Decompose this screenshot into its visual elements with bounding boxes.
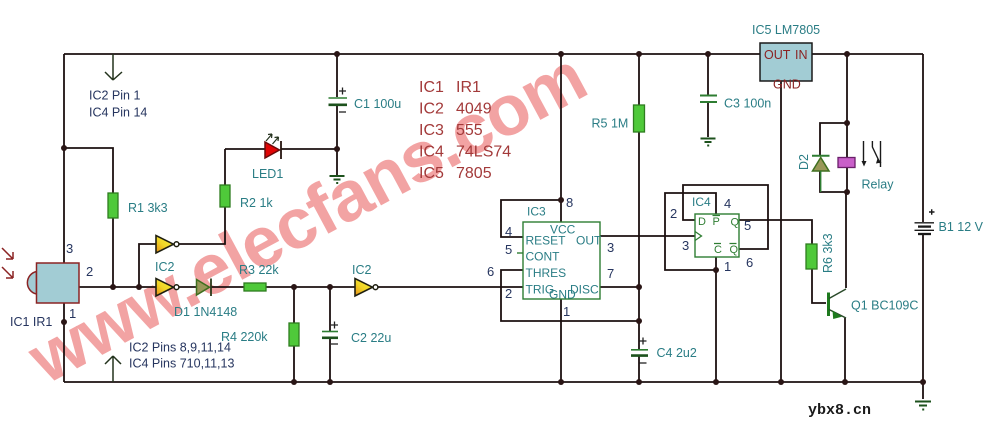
relay contact: [862, 141, 882, 167]
ground below C3: [701, 139, 716, 146]
wire top rail: [64, 53, 923, 55]
svg-text:7805: 7805: [456, 165, 492, 182]
svg-text:Relay: Relay: [862, 178, 895, 192]
wire C1 branch: [336, 54, 338, 175]
svg-text:IC4: IC4: [419, 144, 444, 161]
svg-text:IC2 Pin 1: IC2 Pin 1: [89, 89, 140, 103]
resistor R4: [289, 323, 299, 346]
svg-text:IC3: IC3: [527, 205, 546, 219]
wire Q1 emitter to bottom rail: [844, 318, 846, 382]
wire C2 branch: [329, 287, 331, 382]
buffer IC2 gate A: [156, 236, 179, 254]
svg-text:3: 3: [682, 238, 689, 253]
wire IC3 RESET loop: [501, 200, 561, 237]
svg-text:D2: D2: [797, 154, 811, 170]
svg-text:R6 3k3: R6 3k3: [821, 233, 835, 273]
IC5 pin names: [764, 48, 808, 92]
flip-flop IC4 74LS74 box: [695, 214, 739, 257]
resistor R6: [806, 244, 817, 269]
svg-text:THRES: THRES: [526, 266, 567, 280]
relay coil: [838, 158, 855, 168]
wire battery to bottom rail: [922, 234, 924, 399]
regulator IC5 LM7805 box: [760, 43, 812, 81]
wire relay column: [846, 54, 848, 192]
svg-text:IC5: IC5: [419, 165, 444, 182]
wire C3 branch: [707, 54, 709, 137]
wire R3 to buffer C: [266, 286, 355, 288]
wire right rail to battery: [922, 54, 924, 222]
capacitor C3: [700, 96, 717, 103]
ground bottom right: [915, 402, 931, 410]
svg-text:IC2: IC2: [419, 101, 444, 118]
svg-text:5: 5: [505, 242, 512, 257]
wire IC5 GND drop: [780, 81, 782, 382]
IR receiver IC1 IR1: [27, 263, 79, 303]
diode D1: [197, 279, 212, 297]
wire IC3 OUT to IC4 clock: [600, 235, 695, 237]
wire IC3 THRES loop: [501, 270, 639, 321]
wire IC3 DISC: [600, 286, 639, 288]
svg-text:OUT: OUT: [576, 234, 602, 248]
svg-text:ybx8.cn: ybx8.cn: [808, 402, 871, 419]
svg-text:CONT: CONT: [526, 250, 561, 264]
svg-text:C: C: [714, 244, 722, 256]
svg-text:4: 4: [724, 196, 731, 211]
svg-text:RESET: RESET: [526, 234, 567, 248]
svg-text:C2 22u: C2 22u: [351, 331, 391, 345]
svg-text:D1 1N4148: D1 1N4148: [174, 305, 237, 319]
svg-text:C1 100u: C1 100u: [354, 97, 401, 111]
svg-text:8: 8: [566, 195, 573, 210]
wire R1 branch: [64, 148, 113, 287]
wire left rail IR1 pin3: [63, 54, 65, 263]
svg-text:Q: Q: [730, 244, 739, 256]
svg-text:IC2: IC2: [155, 260, 175, 274]
wire IC4 preset clear loop: [665, 193, 716, 270]
IC4 overbars: [713, 216, 737, 244]
svg-text:1: 1: [563, 304, 570, 319]
wire R5 C4 column: [638, 54, 640, 382]
ground below C1: [330, 176, 345, 183]
svg-text:2: 2: [670, 206, 677, 221]
svg-text:B1 12 V: B1 12 V: [939, 220, 984, 234]
capacitor C2: [322, 322, 338, 345]
watermark www.elecfans.com: [15, 37, 598, 399]
wire buffer B output to D1: [179, 286, 197, 288]
svg-text:74LS74: 74LS74: [456, 144, 511, 161]
resistor R1: [108, 193, 118, 218]
svg-text:R3 22k: R3 22k: [239, 263, 279, 277]
transistor Q1: [829, 289, 847, 319]
IC4 clock chevron: [695, 232, 702, 241]
IC3 pin names: [526, 223, 603, 302]
buffer IC2 gate B: [156, 279, 179, 297]
wire buffer C output to IC3 TRIG: [376, 286, 523, 288]
svg-text:5: 5: [744, 218, 751, 233]
svg-text:IC4 Pins 710,11,13: IC4 Pins 710,11,13: [129, 357, 234, 371]
svg-text:2: 2: [86, 264, 93, 279]
wire buffer A output to R2: [179, 207, 226, 244]
wire IC4 Qbar feedback loop: [683, 185, 768, 249]
svg-text:555: 555: [456, 122, 483, 139]
svg-text:C4 2u2: C4 2u2: [657, 346, 697, 360]
svg-text:IC2: IC2: [352, 263, 372, 277]
wire D2 loop: [820, 123, 847, 192]
diode D2: [812, 156, 830, 192]
svg-text:P: P: [713, 216, 720, 228]
IC3 CONT stub pin 5: [517, 252, 523, 254]
IC3 pin numbers: [487, 195, 614, 319]
capacitor C4: [631, 338, 648, 364]
power arrow down IC2 pin1 feed: [105, 54, 122, 80]
svg-text:6: 6: [746, 255, 753, 270]
wire buffer A input riser: [139, 244, 156, 287]
svg-text:IC5 LM7805: IC5 LM7805: [752, 23, 820, 37]
svg-text:R1 3k3: R1 3k3: [128, 201, 168, 215]
wire IC3 VCC riser: [560, 54, 562, 222]
svg-text:2: 2: [505, 286, 512, 301]
wire D1 to R3: [211, 286, 244, 288]
wire IC3 GND drop: [560, 299, 562, 382]
svg-text:GND: GND: [549, 288, 576, 302]
svg-text:3: 3: [607, 240, 614, 255]
wire LED line: [225, 148, 337, 150]
IC4 pin names: [698, 216, 740, 256]
wire bottom rail: [64, 381, 923, 383]
wire IC4 clear to bottom rail: [715, 257, 717, 382]
svg-text:D: D: [698, 216, 706, 228]
svg-text:1: 1: [69, 306, 76, 321]
svg-text:IC2 Pins 8,9,11,14: IC2 Pins 8,9,11,14: [129, 341, 231, 355]
wire IC4 Q to R6: [739, 220, 812, 244]
power arrow up IC2/IC4 ground pins: [105, 356, 121, 382]
wire R4 branch: [293, 287, 295, 382]
wire Q1 collector to relay: [845, 192, 847, 288]
svg-text:IC1: IC1: [419, 79, 444, 96]
resistor R2: [220, 185, 230, 207]
svg-text:OUT: OUT: [764, 48, 791, 62]
svg-text:Q: Q: [731, 217, 740, 229]
svg-text:IC3: IC3: [419, 122, 444, 139]
svg-text:4: 4: [505, 224, 512, 239]
wire left rail IR1 pin1: [63, 303, 65, 382]
IR arrows incoming light: [2, 248, 13, 278]
svg-text:IC1 IR1: IC1 IR1: [10, 315, 52, 329]
svg-text:C3 100n: C3 100n: [724, 97, 771, 111]
svg-text:LED1: LED1: [252, 167, 283, 181]
IC4 pin numbers: [670, 196, 753, 274]
capacitor C1: [329, 88, 348, 113]
svg-text:GND: GND: [773, 78, 801, 92]
svg-text:IC4: IC4: [692, 195, 711, 209]
resistor R5: [634, 105, 645, 132]
svg-text:Q1 BC109C: Q1 BC109C: [851, 299, 918, 313]
svg-text:IR1: IR1: [456, 79, 481, 96]
svg-text:7: 7: [607, 266, 614, 281]
svg-text:R2 1k: R2 1k: [240, 196, 273, 210]
svg-text:IN: IN: [795, 48, 808, 62]
svg-text:1: 1: [724, 259, 731, 274]
red parts list: [419, 79, 511, 182]
resistor R3: [244, 283, 266, 291]
svg-text:R4 220k: R4 220k: [221, 330, 268, 344]
LED LED1: [265, 134, 281, 159]
battery B1: [915, 209, 935, 234]
svg-text:IC4 Pin 14: IC4 Pin 14: [89, 106, 147, 120]
op-amp IC3 555 timer box: [523, 222, 600, 299]
wire IR1 pin2 to buffers: [79, 286, 156, 288]
svg-text:R5 1M: R5 1M: [592, 117, 629, 131]
svg-text:3: 3: [66, 241, 73, 256]
wire R6 to Q1 base: [812, 269, 826, 303]
svg-text:4049: 4049: [456, 101, 492, 118]
svg-text:6: 6: [487, 264, 494, 279]
buffer IC2 gate C: [355, 279, 378, 297]
wire R2 top to LED line: [224, 149, 226, 185]
